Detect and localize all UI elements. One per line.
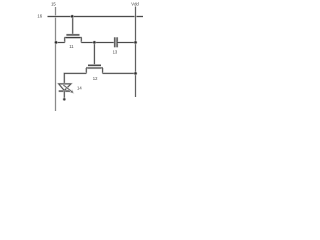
wire transistor 11 drain to capacitor 13 (storage node) <box>81 42 114 44</box>
svg-text:Vdd: Vdd <box>131 1 139 6</box>
capacitor 13 right plate <box>116 37 118 47</box>
transistor 12 source leg <box>85 68 87 73</box>
wire data line to transistor 11 source <box>56 42 65 44</box>
junction dot Vdd line / capacitor wire <box>134 41 138 45</box>
junction dot Vdd line / transistor 12 drain wire <box>134 72 138 76</box>
diode 14 emission arrow shaft <box>63 85 71 91</box>
svg-text:11: 11 <box>69 44 74 49</box>
transistor 11 gate bar <box>66 34 79 36</box>
wire capacitor 13 to Vdd line <box>118 42 136 44</box>
svg-text:13: 13 <box>113 49 118 54</box>
svg-text:15: 15 <box>51 1 56 6</box>
junction dot scan line 16 / transistor 11 gate <box>70 15 74 19</box>
transistor 12 gate bar <box>88 64 101 66</box>
wire storage node to transistor 12 gate lead <box>93 43 95 65</box>
capacitor 13 left plate <box>114 37 116 47</box>
junction dot storage node / transistor 12 gate <box>93 41 97 45</box>
svg-text:14: 14 <box>77 85 82 90</box>
wire scan line 16 (horizontal) <box>48 15 144 17</box>
transistor 11 channel <box>64 36 81 38</box>
svg-text:16: 16 <box>37 13 42 18</box>
transistor 12 channel <box>86 67 103 69</box>
diode 14 emission arrow head <box>70 90 74 93</box>
diode 14 cathode lead wire <box>63 91 65 99</box>
wire data line 15 (vertical) <box>55 7 57 111</box>
wire Vdd supply line (vertical) <box>135 7 137 98</box>
diode 14 triangle <box>59 84 71 91</box>
transistor 11 gate lead wire <box>72 17 74 35</box>
transistor 11 source leg <box>64 38 66 43</box>
wire diode 14 anode to transistor 12 source <box>64 73 86 84</box>
wire transistor 12 drain to Vdd line <box>103 72 136 74</box>
transistor 12 drain leg <box>102 68 104 73</box>
junction dot data line 15 / transistor 11 source wire <box>54 41 58 45</box>
svg-text:12: 12 <box>93 76 98 81</box>
transistor 11 drain leg <box>80 38 82 43</box>
diode 14 cathode bar <box>59 90 71 92</box>
diode 14 cathode terminal dot <box>63 98 66 101</box>
